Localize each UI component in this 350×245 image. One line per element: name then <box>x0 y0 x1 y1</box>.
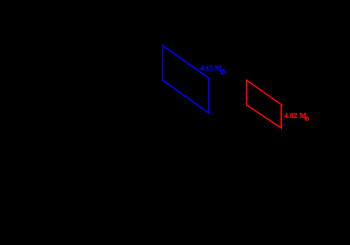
label 4.02 Msun (red) <box>284 111 306 120</box>
svg-text:4.15 M: 4.15 M <box>200 63 222 72</box>
label 4.15 Msun (blue) <box>200 63 222 72</box>
svg-text:4.02 M: 4.02 M <box>284 111 306 120</box>
VLT/GRAVITY mass-distance error region (blue parallelogram) <box>163 45 209 113</box>
blue solar-mass subscript symbol <box>221 70 225 74</box>
Keck mass-distance error region (red parallelogram) <box>247 80 281 128</box>
red solar-mass subscript symbol <box>305 117 308 120</box>
